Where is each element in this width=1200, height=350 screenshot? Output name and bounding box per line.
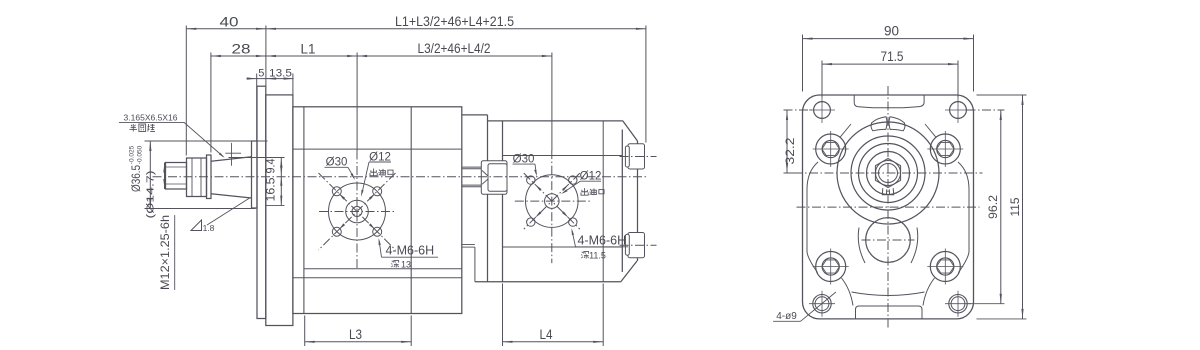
svg-text:90: 90 <box>884 23 899 39</box>
port center bore <box>346 200 369 223</box>
pump1 gear chamber lines <box>303 107 305 314</box>
svg-text:96.2: 96.2 <box>988 195 1000 219</box>
svg-text:4-M6-6H: 4-M6-6H <box>385 244 434 258</box>
svg-text:13.5: 13.5 <box>269 67 292 79</box>
svg-text:13: 13 <box>401 259 411 269</box>
svg-text:3.165X6.5X16: 3.165X6.5X16 <box>124 113 178 123</box>
dim row2: L1 <box>266 55 357 57</box>
svg-text:-0.050: -0.050 <box>137 145 144 164</box>
shaft thread M12 rod <box>166 163 187 190</box>
dim row1: L1+L3/2+46+L4+21.5 <box>266 28 646 30</box>
web around lower bore <box>858 228 865 264</box>
surface finish leader <box>207 198 250 225</box>
dim 71.5 <box>822 63 958 65</box>
dim 9.4 / 16.5 vertical <box>280 158 282 206</box>
inlet connector block <box>481 161 507 195</box>
svg-text:-0.025: -0.025 <box>129 145 136 164</box>
svg-text:32.2: 32.2 <box>785 138 797 165</box>
shaft tangs <box>882 188 886 195</box>
port diagonal centerlines <box>524 173 580 229</box>
svg-text:Ø12: Ø12 <box>580 171 602 183</box>
svg-text:L3/2+46+L4/2: L3/2+46+L4/2 <box>418 40 491 56</box>
pump1 body <box>293 107 462 314</box>
pump2 body <box>488 120 623 122</box>
svg-text:115: 115 <box>1010 198 1022 217</box>
svg-text:40: 40 <box>220 14 239 30</box>
svg-text:Ø36.5: Ø36.5 <box>131 165 143 192</box>
front cover 13.5 <box>266 95 293 326</box>
port horizontal centerline <box>319 211 395 213</box>
dim L4 <box>503 341 604 343</box>
dim (D14.7) <box>164 163 166 190</box>
svg-text:16.5: 16.5 <box>266 178 278 202</box>
port horizontal centerline <box>515 200 591 202</box>
dim D36.5 vertical <box>149 141 151 209</box>
svg-text:4-ø9: 4-ø9 <box>776 311 797 322</box>
right wing <box>958 162 969 273</box>
dim 115 <box>1022 95 1024 319</box>
dim row2: 28 <box>211 55 266 57</box>
svg-text:9.4: 9.4 <box>266 158 278 174</box>
dim row3: 5 <box>247 78 294 80</box>
dim L3 <box>305 341 412 343</box>
svg-text:L1+L3/2+46+L4+21.5: L1+L3/2+46+L4+21.5 <box>395 13 514 29</box>
dim row3: 13.5 <box>266 77 276 79</box>
shaft hex nut <box>875 158 900 187</box>
key leader <box>184 122 223 156</box>
washer <box>207 155 212 199</box>
port vertical centerline <box>551 150 553 263</box>
spigot boss <box>252 141 258 208</box>
surface finish 1.8 triangle <box>191 220 202 231</box>
dim 96.2 <box>1000 110 1002 304</box>
dim row2: L3/2+46+L4/2 <box>357 55 552 57</box>
svg-text:5: 5 <box>258 67 264 79</box>
port pitch circle <box>526 175 579 228</box>
svg-text:Ø30: Ø30 <box>326 157 348 169</box>
port pitch circle <box>329 183 386 240</box>
port diagonal centerlines <box>319 173 396 250</box>
pump1 label depth 13 <box>391 261 394 262</box>
svg-text:L1: L1 <box>301 41 316 57</box>
junction block <box>462 114 488 116</box>
inner bolt bosses <box>816 134 846 164</box>
flange plate outline <box>803 95 974 319</box>
woodruff key mark <box>231 143 233 166</box>
right view centerlines <box>887 86 889 328</box>
port bolt holes <box>332 187 341 196</box>
svg-text:L4: L4 <box>540 326 553 342</box>
svg-text:M12×1.25-6h: M12×1.25-6h <box>158 215 172 290</box>
mounting flange plate <box>257 86 266 318</box>
port radial arrows <box>535 184 542 191</box>
dim 32.2 <box>786 110 788 173</box>
port radial arrows <box>339 193 346 200</box>
extension lines top dims <box>185 26 187 156</box>
rear ear bottom <box>628 233 645 258</box>
pump1 internal bore lines <box>293 148 462 150</box>
top strap rib <box>854 95 924 108</box>
lower gear bore <box>866 218 911 263</box>
center boss circles <box>837 122 939 224</box>
pump2 internal lines <box>602 121 604 282</box>
hex nut <box>187 158 207 197</box>
port bolt holes <box>527 176 535 184</box>
flange corner bolt holes 4-D9 bottom <box>813 295 831 313</box>
rear ear top <box>628 144 645 169</box>
pump2 front plate <box>502 121 504 282</box>
left wing <box>807 162 818 273</box>
svg-text:(Ø14.7): (Ø14.7) <box>145 171 157 219</box>
bottom foot <box>856 306 923 319</box>
dim row1: 40 <box>186 28 266 30</box>
pump2 label depth 11.5 <box>581 252 584 253</box>
pump2 rear chamfers and cover <box>623 121 638 141</box>
flange corner bolt holes 4-D9 top <box>814 102 831 119</box>
port center bore <box>545 194 560 209</box>
svg-text:11.5: 11.5 <box>589 250 606 260</box>
svg-text:L3: L3 <box>349 326 362 342</box>
port vertical centerline <box>356 151 358 271</box>
main axis centerline <box>153 176 649 178</box>
dim 90 <box>803 38 974 40</box>
svg-text:28: 28 <box>232 41 251 57</box>
boss web diagonals <box>840 124 851 137</box>
svg-text:4-M6-6H: 4-M6-6H <box>577 234 626 248</box>
tapered shaft <box>211 157 252 162</box>
top web bananas <box>871 117 887 131</box>
svg-text:71.5: 71.5 <box>881 48 904 64</box>
bottom web arcs <box>842 278 854 306</box>
inlet connector pipe <box>462 166 482 168</box>
